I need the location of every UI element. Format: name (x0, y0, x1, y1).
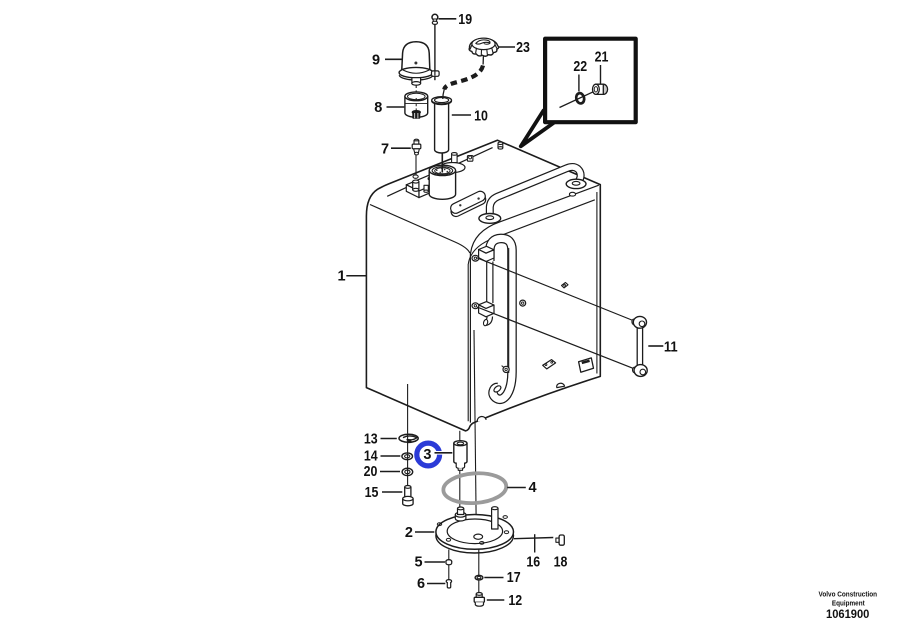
leader 19 (439, 18, 457, 20)
plug 12 (474, 593, 484, 607)
highlight circle 3 (417, 443, 440, 466)
line flange to washer 17 and plug 12 (478, 550, 480, 594)
leader 15 (382, 491, 402, 493)
leader 11 (648, 345, 663, 347)
svg-text:1: 1 (337, 269, 345, 285)
svg-text:18: 18 (554, 555, 568, 571)
handle flange A (479, 214, 501, 224)
leader 13 (381, 438, 397, 440)
svg-text:6: 6 (417, 576, 425, 592)
nipple 7 (412, 139, 421, 175)
snap ring 13 (399, 434, 418, 442)
svg-text:Equipment: Equipment (832, 598, 865, 607)
svg-text:20: 20 (364, 464, 378, 480)
o-ring 4 (442, 471, 507, 505)
callout box (545, 39, 636, 123)
small screw near flange B (569, 192, 575, 196)
filler neck collar on tank top (440, 163, 465, 173)
svg-text:17: 17 (507, 570, 521, 586)
drain boss with tail on front face (502, 366, 510, 373)
svg-text:9: 9 (372, 53, 380, 69)
svg-text:15: 15 (365, 485, 379, 501)
tank top-left fillet line (387, 148, 492, 197)
small clip on front face (562, 283, 569, 288)
screw 19 head (432, 14, 438, 24)
dashed leader from knob into tube (443, 56, 484, 99)
leader 9 (385, 58, 403, 60)
strainer cylinder 8 centerline (415, 85, 417, 111)
leader line B flange center (474, 330, 476, 534)
plate with two holes on top face (lower layer) (449, 190, 488, 219)
tank front-right top edge (471, 185, 599, 253)
leader 2 (415, 531, 434, 533)
svg-text:2: 2 (405, 525, 413, 541)
filler neck on tank top (429, 165, 455, 199)
footer brand text (819, 590, 878, 621)
svg-text:3: 3 (423, 447, 431, 463)
bolt 16 line (514, 534, 553, 552)
leader 3 (435, 451, 453, 455)
star knob 23 (469, 38, 498, 56)
bracket stud 2 (424, 185, 428, 192)
bracket stud 1 (413, 180, 419, 191)
leader 21 (600, 65, 602, 84)
tank front-right top edge inner fillet (468, 200, 595, 264)
washer 17 (475, 575, 483, 580)
foot boss right bottom (557, 383, 565, 387)
handle flange B (566, 179, 586, 188)
stud right of neck (452, 153, 458, 163)
flange 2 (436, 515, 514, 553)
leader 20 (380, 471, 400, 473)
washer stack centerline (407, 434, 409, 486)
leader 23 (498, 46, 515, 48)
leader 14 (381, 455, 401, 457)
svg-text:13: 13 (364, 431, 378, 447)
svg-text:10: 10 (474, 109, 488, 125)
filler tube 10 (432, 97, 452, 173)
svg-text:22: 22 (573, 59, 587, 75)
svg-text:11: 11 (664, 340, 678, 356)
strainer cylinder 8 (405, 92, 428, 119)
washer 20 (402, 468, 413, 475)
svg-text:14: 14 (364, 448, 378, 464)
pipe clamp upper (472, 246, 494, 261)
handle tube on tank top (490, 167, 581, 217)
leader 10 (452, 114, 471, 116)
mounting bracket on tank top (406, 172, 450, 198)
bolt 18 (556, 535, 564, 545)
svg-text:5: 5 (415, 554, 423, 570)
leader line washers stack (407, 384, 409, 434)
screw 19 shaft (434, 24, 436, 81)
leader 7 (391, 147, 411, 149)
tank right edge inner line (596, 192, 598, 374)
link diagonal line upper (477, 258, 636, 322)
o-ring 22 (575, 92, 585, 104)
leader 12 (487, 599, 505, 601)
clamped tube segment (487, 262, 493, 304)
line flange to nut 5 and bolt 6 (448, 550, 450, 580)
leader 22 (578, 75, 580, 92)
leader line A sender (459, 431, 461, 509)
tank front vertical edge outer (469, 253, 471, 423)
svg-text:Volvo Construction: Volvo Construction (819, 590, 878, 599)
callout diagonal line (560, 90, 598, 108)
tank 1 body outline (366, 140, 600, 431)
leader 6 (427, 583, 445, 585)
link rod 11 (632, 316, 647, 376)
svg-text:4: 4 (528, 480, 536, 496)
rail tube on front face (490, 238, 512, 399)
washer 14 (402, 453, 413, 460)
leader 5 (425, 561, 446, 563)
nut 21 (593, 84, 608, 94)
svg-text:12: 12 (508, 593, 522, 609)
bolt 15 (403, 486, 413, 506)
link diagonal line lower (477, 307, 636, 369)
tank front vertical edge inner (467, 264, 469, 421)
leader 17 (484, 577, 503, 579)
breather cap 9 (399, 42, 439, 85)
pipe clamp lower (472, 302, 494, 317)
leader 4 (507, 487, 526, 489)
leader 8 (387, 106, 405, 108)
svg-text:8: 8 (374, 100, 382, 116)
svg-text:16: 16 (526, 555, 540, 571)
bolt 6 (446, 580, 451, 588)
svg-text:7: 7 (381, 141, 389, 157)
screw head on front face (520, 300, 526, 306)
small plate with holes lower right (543, 360, 556, 369)
callout tail (521, 111, 554, 147)
cube stud on top face (467, 156, 473, 162)
svg-text:19: 19 (458, 12, 472, 28)
leader 1 (346, 275, 366, 277)
sender unit 3 (454, 441, 467, 471)
label plate lower right (579, 358, 594, 372)
flange center hole (474, 534, 483, 539)
tank top face front-left edge (370, 205, 470, 254)
nut 5 (446, 560, 452, 565)
foot boss front bottom (477, 417, 486, 422)
flange right pin (492, 507, 498, 529)
flange left pin with collar (455, 507, 466, 521)
svg-text:23: 23 (516, 40, 530, 56)
pin on top corner (498, 142, 503, 149)
tube end curl below lower clamp (483, 317, 490, 327)
svg-text:21: 21 (595, 49, 609, 65)
svg-text:1061900: 1061900 (826, 608, 870, 621)
